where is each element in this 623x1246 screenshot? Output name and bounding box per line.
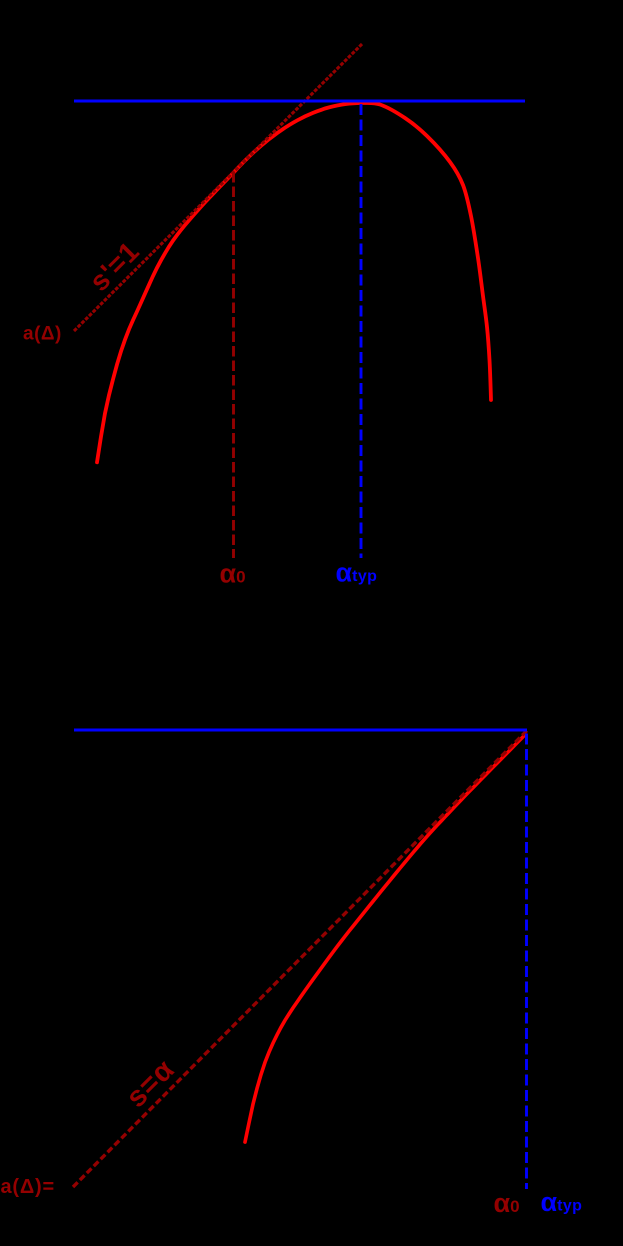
svg-text:a(Δ)=: a(Δ)= [1, 1176, 56, 1198]
top panel: dark-red dashed vertical line at alpha_0 [232, 172, 235, 558]
top panel: dotted dark-red tangent line s'=1 [74, 44, 362, 331]
top panel: blue dashed vertical line at alpha_typ [360, 104, 363, 558]
top panel: red spectrum curve a(Delta) [97, 103, 491, 462]
bottom panel: red curve [245, 735, 525, 1142]
top panel: blue horizontal line [74, 100, 525, 103]
bottom panel: blue dashed vertical line at alpha_typ [525, 734, 528, 1190]
svg-text:a(Δ): a(Δ) [23, 324, 62, 345]
bottom panel: blue horizontal line [74, 729, 527, 732]
bottom panel: dashed dark-red diagonal line s=alpha [73, 731, 527, 1188]
